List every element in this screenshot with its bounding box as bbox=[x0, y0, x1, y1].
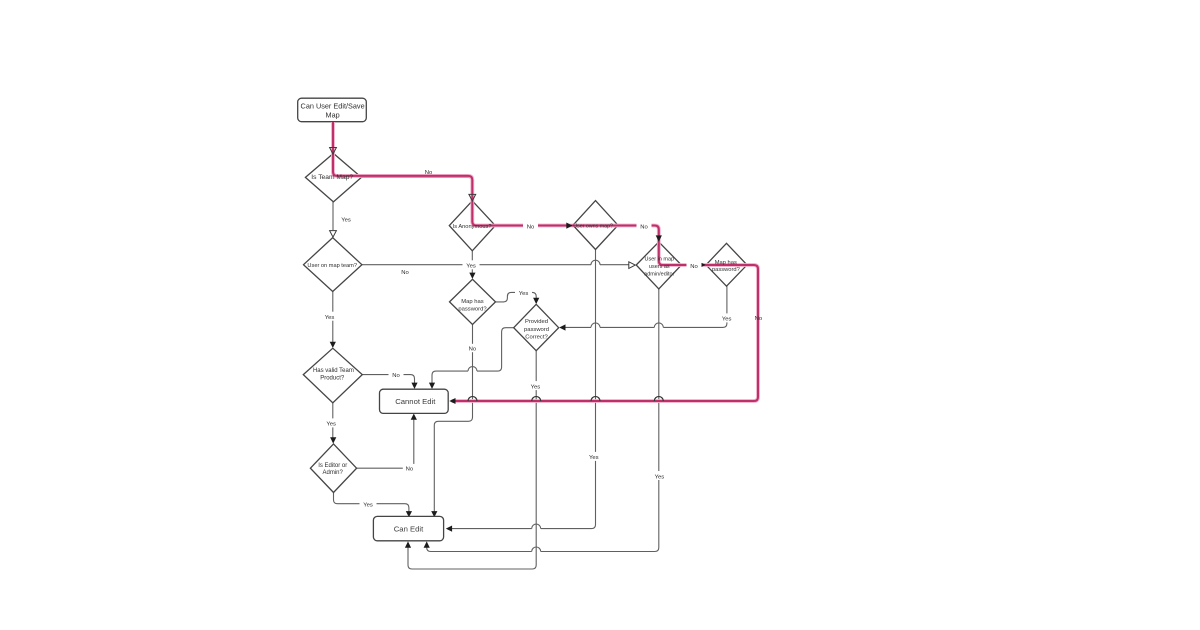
svg-text:Yes: Yes bbox=[341, 217, 351, 223]
svg-text:password: password bbox=[524, 327, 549, 333]
svg-text:password?: password? bbox=[712, 267, 740, 273]
svg-text:Map: Map bbox=[325, 110, 339, 119]
svg-text:Yes: Yes bbox=[655, 474, 665, 480]
svg-text:Yes: Yes bbox=[589, 455, 599, 461]
svg-text:No: No bbox=[640, 224, 648, 230]
svg-text:Is Team Map?: Is Team Map? bbox=[311, 174, 353, 181]
svg-text:No: No bbox=[690, 264, 698, 270]
svg-text:No: No bbox=[527, 224, 535, 230]
svg-text:password?: password? bbox=[458, 306, 487, 312]
svg-text:Is Anonymous?: Is Anonymous? bbox=[453, 224, 492, 230]
svg-text:No: No bbox=[392, 373, 400, 379]
svg-text:Provided: Provided bbox=[525, 319, 548, 325]
svg-text:Can Edit: Can Edit bbox=[394, 525, 424, 534]
svg-text:User in map: User in map bbox=[644, 256, 674, 262]
svg-text:No: No bbox=[755, 316, 763, 322]
svg-text:No: No bbox=[406, 467, 414, 473]
svg-text:Yes: Yes bbox=[363, 502, 373, 508]
svg-text:Has valid Team: Has valid Team bbox=[313, 368, 354, 374]
svg-text:Yes: Yes bbox=[325, 315, 335, 321]
svg-text:Yes: Yes bbox=[722, 317, 732, 323]
svg-text:User owns map?: User owns map? bbox=[573, 223, 613, 229]
svg-text:Yes: Yes bbox=[519, 291, 529, 297]
svg-text:No: No bbox=[425, 170, 433, 176]
svg-text:Yes: Yes bbox=[531, 384, 541, 390]
svg-text:No: No bbox=[401, 270, 409, 276]
svg-text:Yes: Yes bbox=[326, 422, 336, 428]
svg-text:User on map team?: User on map team? bbox=[307, 263, 357, 269]
svg-text:Admin?: Admin? bbox=[323, 470, 344, 476]
svg-text:Product?: Product? bbox=[320, 375, 345, 381]
svg-text:No: No bbox=[469, 347, 477, 353]
svg-text:Cannot Edit: Cannot Edit bbox=[395, 397, 436, 406]
svg-text:Can User Edit/Save: Can User Edit/Save bbox=[301, 102, 365, 111]
svg-text:users as: users as bbox=[649, 264, 670, 270]
svg-text:Map has: Map has bbox=[715, 260, 737, 266]
svg-text:admin/editor: admin/editor bbox=[644, 272, 674, 278]
svg-text:Is Editor or: Is Editor or bbox=[318, 463, 347, 469]
svg-text:Yes: Yes bbox=[466, 264, 476, 270]
svg-text:Correct?: Correct? bbox=[525, 334, 548, 340]
svg-text:Map has: Map has bbox=[461, 299, 483, 305]
